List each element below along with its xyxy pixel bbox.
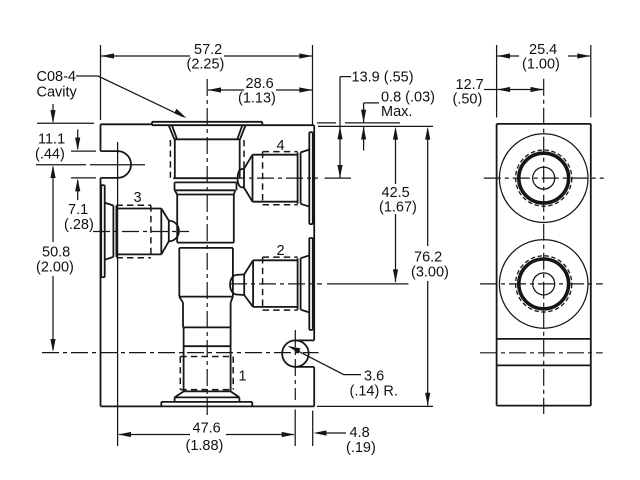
port A circles [499,134,588,223]
centerline ext for 11.1/50.8 [36,164,86,166]
svg-text:(1.67): (1.67) [379,200,417,216]
section 3 [177,195,234,248]
28.6 dim [208,76,312,107]
7.1 dim [64,178,96,233]
flange [152,122,262,125]
47.6 extension line through slot center [117,142,119,446]
port 4 centerline [228,177,318,179]
left slot (port under 7.1 dim) [101,151,132,178]
side view centerlines [543,79,545,414]
svg-text:(1.88): (1.88) [186,438,224,454]
42.5 dim [379,127,417,283]
svg-text:(.44): (.44) [35,147,65,163]
bottom edge extension [317,405,433,407]
port B circles [499,240,588,329]
svg-text:76.2: 76.2 [414,250,442,266]
svg-text:(1.13): (1.13) [238,91,276,107]
svg-text:1: 1 [239,369,247,385]
svg-text:(2.00): (2.00) [36,260,74,276]
svg-text:7.1: 7.1 [68,202,88,218]
svg-text:Cavity: Cavity [37,85,78,101]
main horizontal centerline y352.5 [42,352,319,354]
port 2 centerline [230,283,322,285]
C08-4 Cavity label [37,69,187,118]
svg-text:4.8: 4.8 [350,425,370,441]
neck taper [169,125,246,139]
body outline [101,124,315,406]
svg-text:Max.: Max. [381,104,412,120]
port 3 centerline [93,231,189,233]
47.6 dim [118,410,295,455]
11.1 dim [35,104,96,163]
svg-text:(1.00): (1.00) [522,57,560,73]
section 1 [170,139,244,182]
section 5 [183,303,231,328]
svg-text:(.50): (.50) [453,92,483,108]
section 2 [175,182,237,194]
section 4 [179,248,233,303]
3.6 R keyhole on right edge [282,340,314,367]
svg-text:13.9 (.55): 13.9 (.55) [352,70,414,86]
4.8 dim [313,411,376,456]
svg-text:(2.25): (2.25) [187,57,225,73]
svg-text:3.6: 3.6 [364,369,384,385]
12.7 dim [453,77,544,108]
svg-text:2: 2 [277,243,285,259]
svg-text:50.8: 50.8 [42,245,70,261]
50.8 dim [36,165,74,352]
flange-top extension line [317,122,336,124]
section 6 [184,328,231,392]
cavity centerline [206,79,208,417]
0.8 Max dim [361,90,435,151]
surface extension line [318,125,433,127]
svg-text:(.28): (.28) [64,217,94,233]
3.6 hole centerlines [294,330,296,400]
3.6 R leader [288,346,398,400]
57.2 dim [101,42,312,73]
svg-text:3: 3 [134,190,142,206]
57.2 / 28.6 extension lines [100,45,102,120]
svg-text:11.1: 11.1 [38,132,65,148]
25.4 dim [497,42,591,118]
13.9 dim [337,70,413,179]
svg-text:(.19): (.19) [346,440,376,456]
76.2 dim [411,127,449,406]
svg-text:C08-4: C08-4 [37,69,77,85]
svg-text:47.6: 47.6 [193,421,221,437]
svg-text:(.14) R.: (.14) R. [350,384,398,400]
svg-text:(3.00): (3.00) [411,265,449,281]
svg-text:4: 4 [277,138,285,154]
